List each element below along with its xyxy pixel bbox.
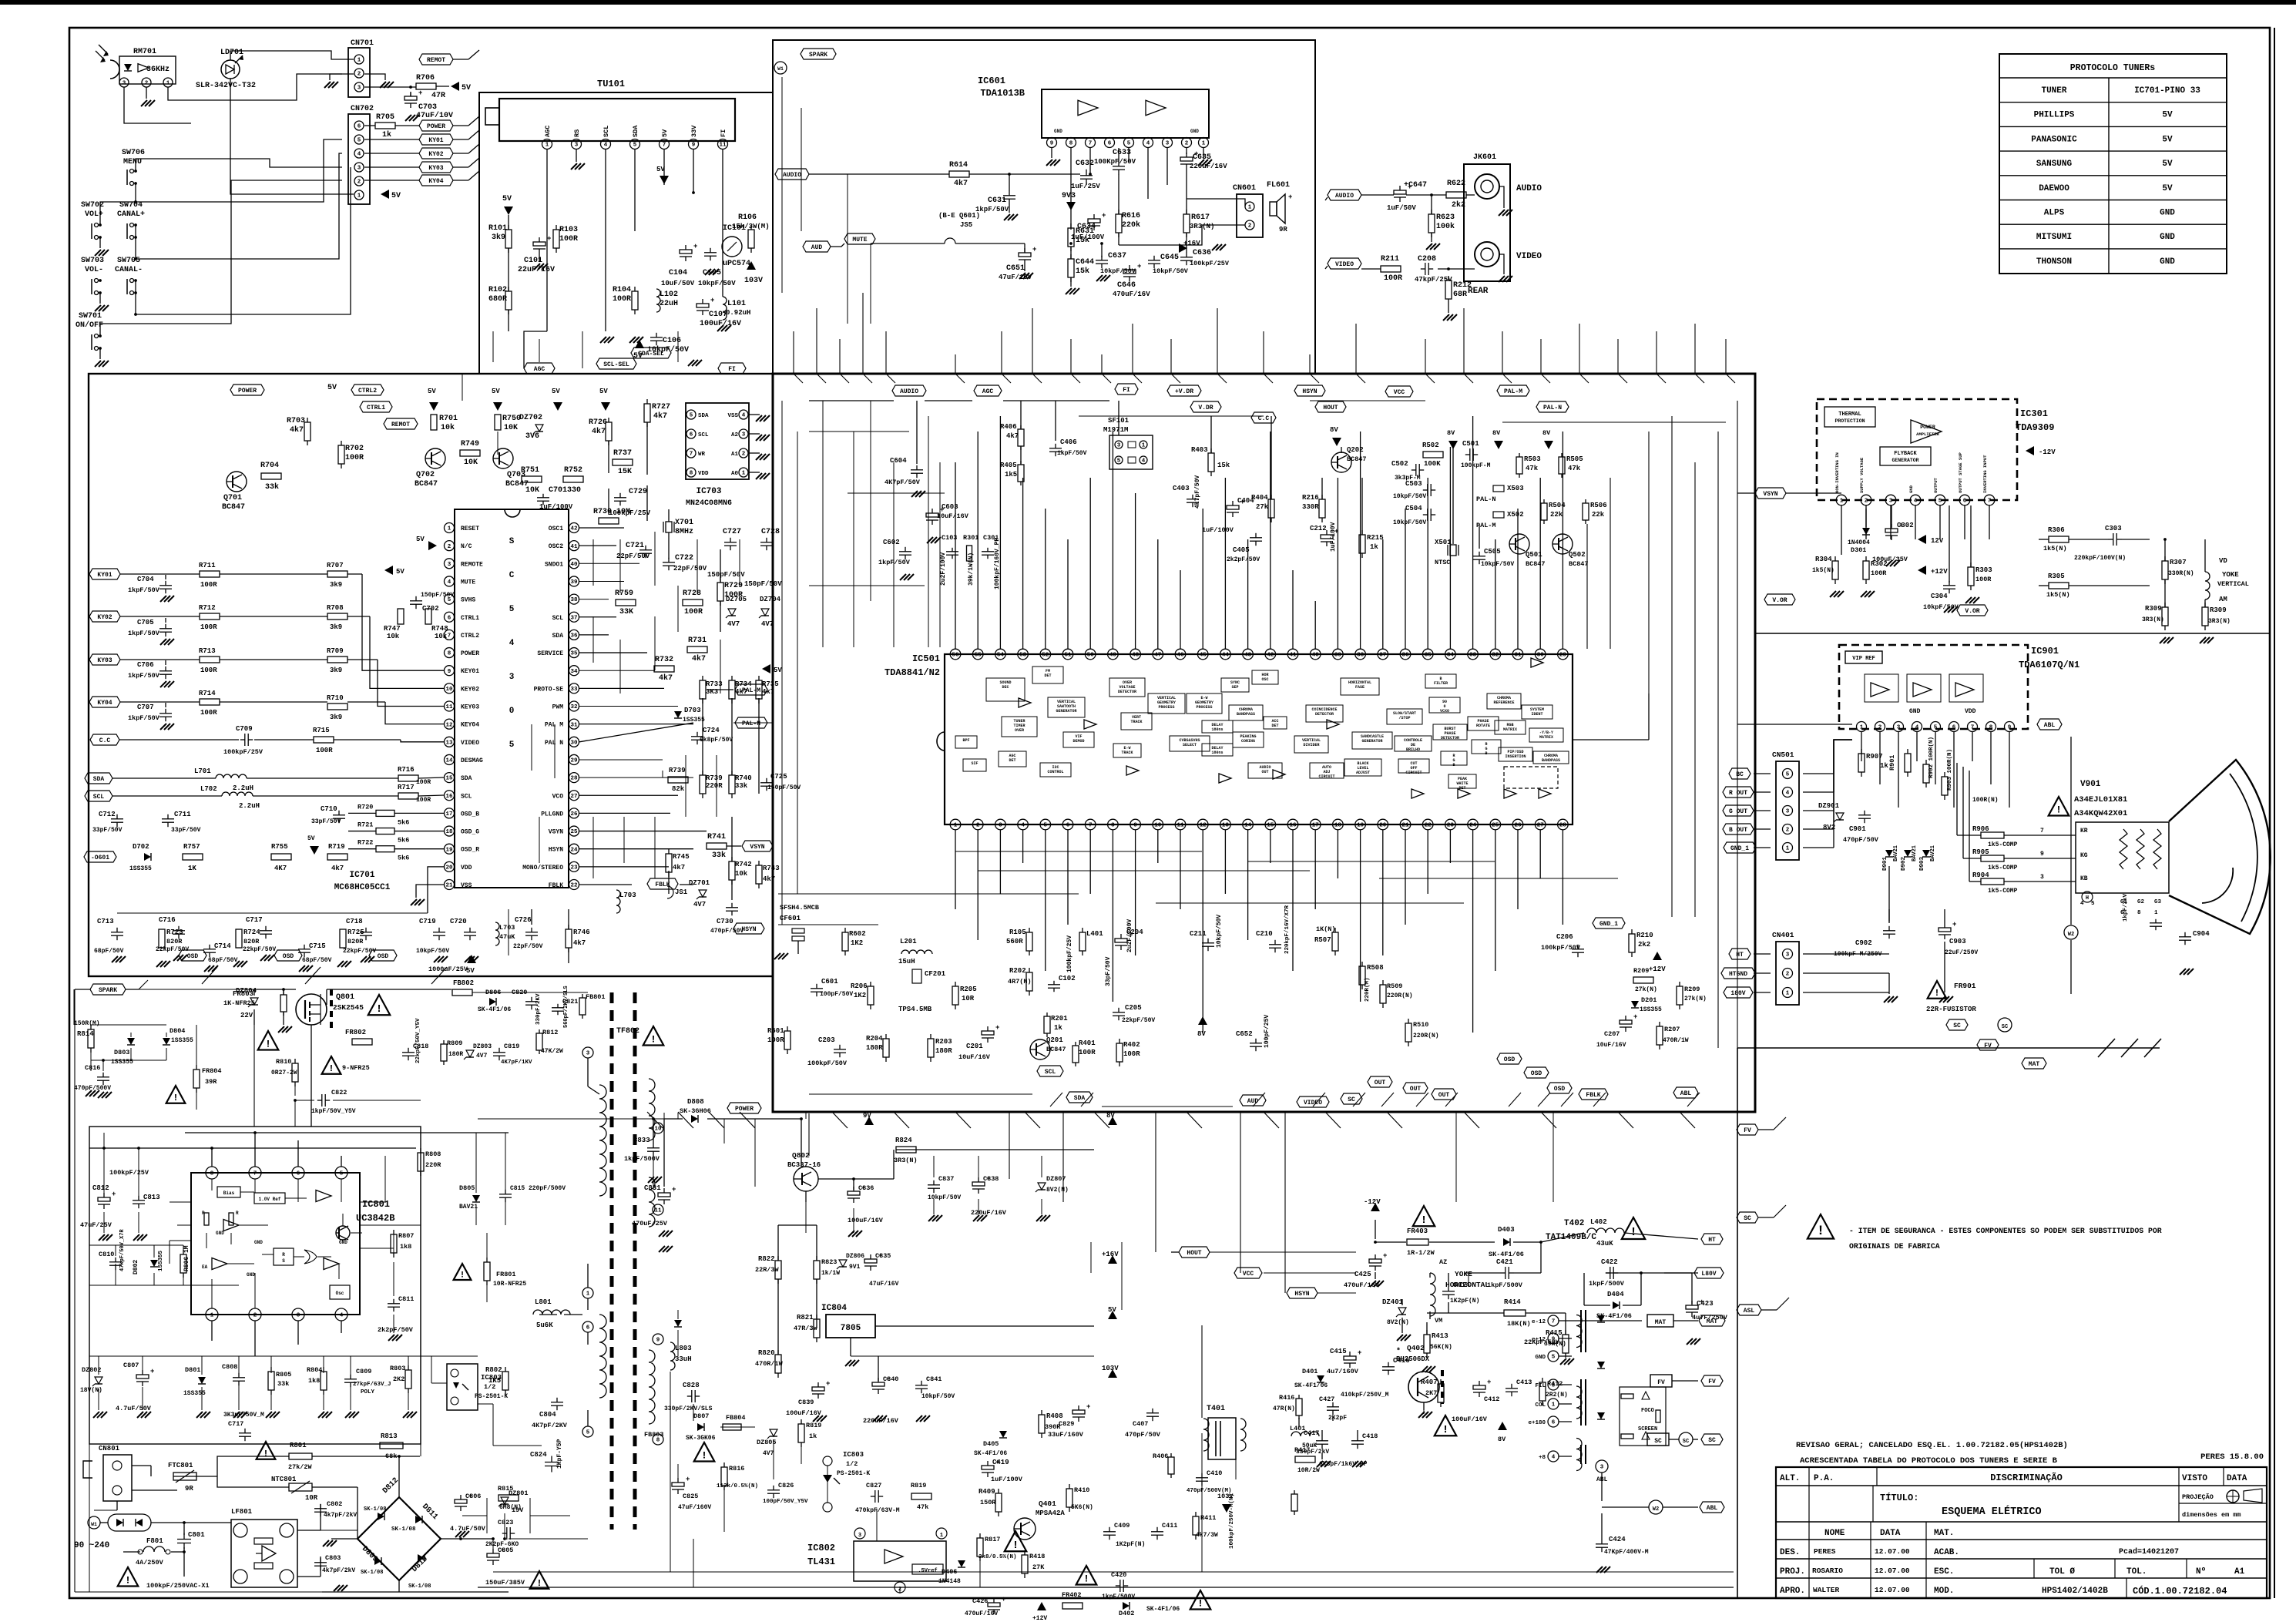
capacitor C504: [1427, 509, 1428, 521]
IC601 pin 8: [1066, 138, 1076, 148]
resistor R215: [1359, 535, 1365, 553]
wire IC501 pin 43 vertical: [1247, 539, 1249, 649]
svg-text:1k: 1k: [1880, 762, 1888, 770]
resistor R714: [200, 699, 220, 705]
svg-text:100kpF/250VAC-X1: 100kpF/250VAC-X1: [146, 1582, 210, 1590]
svg-text:AGC: AGC: [544, 126, 552, 137]
svg-text:10uF/16V: 10uF/16V: [1596, 1042, 1626, 1049]
resistor R701: [431, 415, 437, 430]
resistor R735: [756, 680, 762, 699]
svg-text:D402: D402: [1119, 1610, 1134, 1617]
svg-text:C808: C808: [222, 1363, 237, 1371]
svg-text:C827: C827: [866, 1482, 881, 1489]
svg-text:OSD: OSD: [378, 953, 389, 960]
RGB amplifier IC901 TDA6107Q dashed body: [1839, 645, 2028, 729]
svg-text:31: 31: [1514, 653, 1522, 659]
svg-text:5V: 5V: [774, 667, 782, 674]
svg-text:MATRIX: MATRIX: [1503, 727, 1517, 732]
svg-text:(B-E Q601): (B-E Q601): [938, 212, 980, 220]
svg-text:2: 2: [1786, 828, 1790, 834]
svg-text:5: 5: [1552, 1355, 1556, 1361]
svg-text:8V: 8V: [1542, 429, 1551, 437]
wire FI down: [722, 149, 723, 297]
svg-text:1: 1: [586, 1291, 590, 1298]
svg-text:12.07.00: 12.07.00: [1875, 1586, 1910, 1594]
capacitor C721: [639, 549, 652, 551]
svg-text:+: +: [693, 243, 697, 250]
svg-text:CN401: CN401: [1772, 931, 1794, 939]
wires transformer primary: [587, 1058, 589, 1086]
svg-text:YOKE: YOKE: [2222, 571, 2239, 579]
wire IC501 pin 54 vertical: [999, 416, 1001, 649]
capacitor C427: [1327, 1406, 1339, 1408]
svg-text:470pF/50V: 470pF/50V: [1125, 1431, 1161, 1439]
resistor R414: [1504, 1310, 1526, 1316]
CN501 pin 3: [1783, 806, 1793, 816]
wire IC701 pin21 VSS: [416, 885, 444, 898]
diode D405: [999, 1431, 1007, 1438]
wires mains: [132, 1465, 151, 1466]
capacitor C403: [1187, 499, 1199, 500]
svg-text:16: 16: [445, 794, 453, 800]
svg-text:32: 32: [570, 704, 578, 710]
svg-text:GND: GND: [1190, 129, 1199, 134]
IC701 pin 6 CTRL1: [445, 612, 455, 622]
thermistor NTC801: [289, 1483, 312, 1491]
svg-text:!: !: [1012, 1540, 1019, 1552]
svg-text:R759: R759: [615, 589, 633, 598]
svg-text:SC: SC: [1953, 1023, 1961, 1029]
svg-text:C718: C718: [346, 918, 363, 925]
wire RM701 pin1 to CN701: [168, 74, 342, 100]
svg-text:R747: R747: [384, 625, 401, 633]
capacitor C703: [404, 96, 417, 100]
svg-text:100R: 100R: [200, 623, 217, 631]
svg-text:33uF/160V: 33uF/160V: [1048, 1431, 1084, 1439]
wire IC501 pin 4 vertical: [1022, 830, 1024, 863]
svg-text:e+12: e+12: [1532, 1337, 1546, 1343]
svg-text:R824: R824: [895, 1137, 912, 1144]
svg-text:PAL M: PAL M: [545, 722, 563, 729]
svg-text:OSC: OSC: [1261, 677, 1268, 682]
svg-text:MATRIX: MATRIX: [1539, 735, 1553, 740]
svg-text:11: 11: [445, 704, 453, 710]
long wires right section: [1737, 724, 1852, 725]
power 5V reg: [1108, 1311, 1117, 1319]
svg-text:HT: HT: [1736, 952, 1744, 959]
svg-text:R810: R810: [276, 1058, 291, 1066]
svg-text:68R: 68R: [1453, 290, 1467, 299]
svg-text:OUT: OUT: [1438, 1092, 1450, 1099]
IC501 pin 8: [1108, 819, 1119, 830]
svg-text:7: 7: [663, 143, 666, 149]
IC703 pin 8 VDD: [686, 468, 696, 477]
IC701 pin 38: [569, 594, 579, 604]
IC601 pin 9: [1047, 138, 1057, 148]
svg-text:4k7: 4k7: [763, 875, 775, 883]
svg-text:100R: 100R: [1384, 274, 1402, 283]
wire C.C to VIDEO pin: [119, 739, 239, 740]
svg-text:4k7: 4k7: [673, 864, 685, 871]
warning tl431: [1005, 1531, 1027, 1551]
T402 FV box: [1650, 1375, 1672, 1387]
svg-text:FBLK: FBLK: [1586, 1092, 1600, 1099]
resistor R715: [314, 737, 334, 743]
svg-text:1: 1: [1786, 846, 1790, 852]
svg-text:BAV21: BAV21: [459, 1204, 478, 1211]
svg-text:IC601: IC601: [978, 76, 1005, 86]
svg-text:R712: R712: [199, 604, 216, 612]
power 5V pin2: [428, 541, 437, 550]
power -12V ic301: [2026, 446, 2034, 455]
svg-text:L703: L703: [619, 892, 636, 899]
power 103V: [747, 261, 756, 270]
capacitor C822: [321, 1094, 323, 1107]
svg-text:PAL-M: PAL-M: [1504, 388, 1522, 395]
warning defl2: [1190, 1590, 1211, 1610]
IC501 pin 23: [1445, 819, 1456, 830]
IC801 internal resistors: [204, 1213, 209, 1225]
svg-text:14: 14: [445, 758, 453, 764]
svg-text:C822: C822: [331, 1089, 347, 1096]
svg-text:3: 3: [1889, 499, 1893, 505]
stub hatch wires on center box bottom: [1050, 1093, 1062, 1107]
net flag SCL-SEL: [596, 358, 636, 369]
svg-text:AM: AM: [2219, 596, 2227, 603]
svg-text:5: 5: [509, 605, 515, 614]
svg-text:2: 2: [1865, 499, 1868, 505]
svg-text:R749: R749: [461, 440, 479, 448]
flag VIDEO to jack: [1328, 258, 1361, 269]
flag MAT bm: [1699, 1315, 1725, 1326]
svg-text:330pF/2KV/SLS: 330pF/2KV/SLS: [664, 1405, 713, 1412]
IC501 pin 27: [1535, 819, 1546, 830]
svg-text:+C647: +C647: [1404, 181, 1427, 190]
svg-text:1: 1: [448, 526, 451, 532]
svg-text:C427: C427: [1319, 1395, 1334, 1403]
inductor L703: [616, 890, 620, 913]
resistor R738: [668, 777, 688, 783]
svg-text:A0: A0: [731, 471, 739, 477]
wires inside IC801: [211, 1179, 213, 1190]
svg-text:DETECTOR: DETECTOR: [1118, 690, 1136, 694]
svg-text:470pF/500V: 470pF/500V: [74, 1085, 111, 1092]
svg-text:470uF/25V: 470uF/25V: [632, 1220, 668, 1227]
IC501 pin 53: [1018, 649, 1029, 660]
svg-text:4V7: 4V7: [727, 620, 740, 628]
svg-text:/STOP: /STOP: [1398, 716, 1410, 720]
svg-text:7805: 7805: [841, 1324, 861, 1333]
svg-text:A34EJL01X81: A34EJL01X81: [2074, 795, 2127, 804]
svg-text:47K/2W: 47K/2W: [541, 1048, 563, 1055]
svg-text:PROTECTION: PROTECTION: [1834, 418, 1865, 424]
svg-text:D403: D403: [1498, 1226, 1515, 1234]
capacitor C704: [159, 585, 172, 586]
svg-text:6: 6: [586, 1325, 590, 1332]
wire SDA bus: [112, 777, 216, 779]
wires IC901 pins down: [1861, 732, 1862, 761]
svg-text:KEY02: KEY02: [461, 686, 479, 693]
capacitor C101: [533, 242, 545, 246]
svg-text:10uF/16V: 10uF/16V: [937, 512, 969, 520]
svg-text:43: 43: [1244, 653, 1252, 659]
resistor R728: [683, 599, 703, 606]
diode D804: [163, 1038, 170, 1045]
svg-text:+: +: [418, 89, 422, 97]
svg-text:10k: 10k: [435, 633, 448, 640]
svg-text:10: 10: [1154, 823, 1162, 829]
svg-text:ALT.: ALT.: [1780, 1474, 1800, 1483]
power 103V: [1108, 1369, 1117, 1378]
svg-text:BAV21: BAV21: [1912, 845, 1918, 861]
net flag POWER: [419, 120, 453, 131]
svg-text:R503: R503: [1524, 455, 1541, 463]
optocoupler IC803b: [823, 1456, 832, 1466]
svg-text:R301: R301: [963, 534, 978, 542]
IC601 internal amplifier triangles: [1078, 100, 1098, 116]
svg-text:47uF/10V: 47uF/10V: [416, 111, 453, 120]
svg-text:4k7: 4k7: [692, 654, 706, 663]
svg-text:AGC: AGC: [982, 388, 994, 395]
svg-text:PANASONIC: PANASONIC: [2031, 135, 2077, 144]
diode D901: [1885, 850, 1893, 857]
svg-text:RM701: RM701: [133, 48, 156, 56]
svg-text:JK601: JK601: [1473, 153, 1496, 162]
svg-text:3: 3: [575, 143, 579, 149]
capacitor C805: [487, 1553, 499, 1557]
svg-text:Q202: Q202: [1347, 446, 1364, 454]
svg-text:VSS: VSS: [727, 413, 738, 419]
svg-text:1uF/50V: 1uF/50V: [1387, 204, 1416, 212]
svg-text:42: 42: [570, 526, 578, 532]
svg-text:1kpF/500V: 1kpF/500V: [1102, 1593, 1135, 1600]
svg-text:R802: R802: [485, 1366, 502, 1374]
wire AGC pin down: [546, 149, 548, 331]
svg-text:HSYN: HSYN: [741, 926, 756, 933]
svg-text:CN501: CN501: [1772, 751, 1794, 759]
flag POWER bm: [727, 1103, 761, 1113]
svg-text:39: 39: [570, 579, 578, 586]
svg-text:R816: R816: [729, 1465, 744, 1473]
resistor R418: [1022, 1555, 1028, 1573]
svg-text:22pF/50V: 22pF/50V: [513, 943, 543, 950]
svg-text:1kpF/50V: 1kpF/50V: [128, 630, 160, 637]
svg-text:ORIGINAIS DE FABRICA: ORIGINAIS DE FABRICA: [1849, 1242, 1940, 1251]
svg-text:HOUT: HOUT: [1187, 1250, 1201, 1257]
capacitor C835: [864, 1259, 877, 1263]
svg-text:F801: F801: [146, 1537, 163, 1545]
svg-text:OSD: OSD: [283, 953, 294, 960]
svg-text:BC847: BC847: [415, 480, 438, 489]
IC701 pin 35 SERVICE: [569, 648, 579, 658]
wire keys row3 to CN702: [135, 280, 136, 314]
svg-text:1k5-COMP: 1k5-COMP: [1988, 888, 2018, 895]
svg-text:L702: L702: [200, 785, 217, 793]
capacitor C423: [1686, 1305, 1698, 1309]
svg-text:42: 42: [1267, 653, 1274, 659]
flag L80V bm: [1694, 1268, 1724, 1278]
power +12V b: [1918, 566, 1926, 575]
wires KY01-04 to IC pins: [120, 573, 200, 575]
capacitor C604: [911, 469, 923, 471]
svg-text:MC68HC05CC1: MC68HC05CC1: [334, 883, 391, 892]
IC501 block FM DET: [1032, 667, 1063, 683]
svg-text:+12V: +12V: [1931, 568, 1948, 576]
svg-text:3: 3: [999, 823, 1002, 829]
IC501 pin 35: [1422, 649, 1433, 660]
wire IC501 pin 16 vertical: [1292, 830, 1294, 971]
svg-text:6M8(N): 6M8(N): [499, 1504, 522, 1511]
svg-text:6: 6: [297, 1171, 300, 1177]
svg-text:C717: C717: [246, 916, 263, 924]
V901 CRT label: [2049, 797, 2069, 816]
svg-text:.5Vref: .5Vref: [918, 1568, 937, 1574]
svg-text:4: 4: [2080, 901, 2084, 907]
inductor L102: [656, 289, 660, 312]
svg-text:AZ: AZ: [1439, 1258, 1447, 1266]
svg-text:PAL-M: PAL-M: [742, 687, 760, 694]
fusistor FR801: [454, 1264, 472, 1280]
wire MENU to CN702 pin3: [136, 159, 342, 168]
svg-text:1uF/100V: 1uF/100V: [1202, 526, 1234, 534]
capacitor C729: [614, 497, 626, 499]
IC501 block VERTICAL GEOMETRY PROCESS: [1148, 693, 1185, 714]
IC901 pin 9: [2005, 722, 2015, 732]
TU101 pin 7 5V: [660, 139, 670, 149]
circle W2 bm: [1649, 1500, 1663, 1514]
svg-text:1k5(N): 1k5(N): [2046, 591, 2070, 599]
svg-text:1k: 1k: [1370, 543, 1378, 551]
svg-text:29: 29: [1559, 653, 1567, 659]
flag OSD 3: [369, 950, 397, 961]
svg-text:CN701: CN701: [351, 39, 374, 48]
svg-text:DZ901: DZ901: [1818, 802, 1840, 810]
resistor R709: [327, 657, 347, 663]
warning c823b: [257, 1442, 276, 1459]
warning q402: [1435, 1415, 1457, 1436]
svg-text:40: 40: [570, 562, 578, 568]
capacitor C705: [159, 628, 172, 630]
svg-text:R706: R706: [416, 74, 435, 82]
svg-text:C811: C811: [398, 1295, 414, 1303]
svg-text:1k: 1k: [809, 1432, 817, 1440]
svg-text:5: 5: [586, 1430, 590, 1436]
wires regulators: [664, 1118, 683, 1120]
svg-text:-12V: -12V: [1364, 1198, 1381, 1206]
resistor R101: [505, 230, 512, 248]
diode D301 1N4004: [1862, 528, 1870, 535]
svg-text:C210: C210: [1256, 930, 1273, 938]
svg-text:1K5: 1K5: [488, 1377, 501, 1385]
svg-text:D903: D903: [1919, 856, 1925, 871]
svg-text:47k: 47k: [917, 1503, 928, 1511]
svg-text:!: !: [328, 1063, 334, 1074]
IC501 pin 48: [1130, 649, 1141, 660]
svg-text:FV: FV: [1984, 1043, 1992, 1049]
svg-text:R813: R813: [381, 1432, 398, 1440]
svg-text:5k6: 5k6: [398, 818, 409, 826]
svg-text:22R/3W: 22R/3W: [755, 1266, 780, 1274]
IC701 top notch: [505, 509, 520, 517]
svg-text:R416: R416: [1279, 1394, 1294, 1402]
svg-text:C102: C102: [1059, 975, 1076, 982]
capacitor C425: [1369, 1259, 1381, 1263]
svg-text:SK-3GK06: SK-3GK06: [686, 1435, 716, 1442]
wire SW701 to CN702 pin2: [100, 180, 342, 336]
resistor R614: [949, 171, 969, 177]
capacitor C503: [1427, 484, 1428, 496]
svg-text:100kpF/50V: 100kpF/50V: [807, 1060, 848, 1067]
IC801 Bias block: [217, 1187, 240, 1197]
svg-text:8V: 8V: [1447, 429, 1455, 437]
svg-text:C901: C901: [1849, 825, 1866, 833]
flag AUDIO to jack: [1328, 190, 1361, 200]
zener DZ901: [1836, 813, 1844, 820]
capacitor C724: [691, 736, 703, 737]
svg-text:C823: C823: [498, 1519, 513, 1526]
svg-text:+12V: +12V: [1032, 1615, 1047, 1622]
IC501 pin 30: [1535, 649, 1546, 660]
IC501 block E-W GEOMETRY PROCESS: [1187, 693, 1222, 714]
capacitor C410: [1196, 1477, 1208, 1479]
svg-text:HSYN: HSYN: [549, 847, 563, 854]
svg-text:H: H: [2086, 895, 2089, 902]
resistor R209b: [1677, 986, 1683, 1005]
svg-text:CTRL1: CTRL1: [461, 615, 479, 622]
wire SCL bus: [112, 795, 222, 797]
capacitor C304: [1943, 585, 1955, 586]
svg-text:-12V: -12V: [2039, 448, 2056, 456]
svg-text:1k/1W: 1k/1W: [821, 1270, 840, 1277]
resistor R211: [1381, 266, 1401, 272]
svg-text:680R: 680R: [488, 295, 507, 304]
svg-text:180V: 180V: [1730, 990, 1745, 997]
capacitor C815: [499, 1194, 512, 1195]
transistor Q202: [1331, 452, 1351, 472]
power supply inner wires: [103, 1148, 105, 1196]
svg-text:R616: R616: [1122, 212, 1140, 220]
IC301 flyback generator block: [1880, 447, 1931, 465]
svg-text:DZ803: DZ803: [473, 1043, 492, 1050]
svg-text:DATA: DATA: [1880, 1529, 1901, 1538]
svg-text:R104: R104: [613, 286, 631, 294]
diode D802: [150, 1260, 158, 1267]
resistor R413: [1424, 1335, 1430, 1353]
svg-text:30: 30: [1537, 653, 1545, 659]
IC501 pin 11: [1175, 819, 1186, 830]
protocol tuners table: [1999, 54, 2227, 274]
svg-text:D401: D401: [1302, 1368, 1318, 1375]
svg-text:ADJUST: ADJUST: [1356, 771, 1370, 775]
resistor R802: [502, 1372, 509, 1390]
wires CN702 pins to KY flags: [364, 139, 419, 140]
svg-text:470R/1W: 470R/1W: [1663, 1037, 1689, 1044]
CN501 pin 1: [1783, 843, 1793, 853]
LED LD701: [221, 60, 240, 79]
svg-text:330pF/2KV: 330pF/2KV: [535, 993, 542, 1025]
IC801 1.0V Ref block: [254, 1193, 285, 1204]
power 12V: [1918, 535, 1926, 544]
svg-text:+: +: [1952, 921, 1956, 929]
zener DZ705: [728, 609, 736, 616]
power 9V3: [1066, 202, 1076, 210]
svg-text:PAL-N: PAL-N: [742, 720, 760, 727]
power 5V right: [762, 664, 770, 673]
svg-text:PS-2501-K: PS-2501-K: [837, 1470, 870, 1477]
svg-text:1SS355: 1SS355: [683, 717, 705, 724]
svg-text:R701: R701: [439, 415, 458, 423]
resistor R739: [700, 775, 706, 794]
